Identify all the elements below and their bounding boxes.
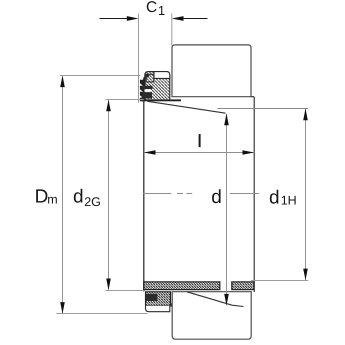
sleeve big-end outer rectangle (lower half) [172,292,251,340]
step at right of upper rectangle [251,96,254,98]
sleeve cross-section bar (lower half) left part [144,282,220,290]
svg-text:m: m [47,192,57,206]
dimension label C1 [146,0,165,18]
dimension line l with arrows [144,150,254,155]
taper outline diagonal (upper) [148,101,226,113]
dimension label d2G [73,187,101,209]
dimension line d1H with arrows [303,109,308,281]
extension line d1H bottom [251,280,308,282]
dimension label l [199,134,201,147]
locknut cross-section (upper half) [145,72,170,101]
dimension label Dm [35,187,58,208]
dimension line d2G with arrows [106,100,111,291]
extension line d1H top [218,108,309,110]
svg-text:2G: 2G [84,195,101,209]
extension line C1 left [138,14,140,103]
svg-text:d: d [211,187,222,208]
dimension line C1 (right segment with arrow) [172,16,208,21]
dimension label d1H [269,187,297,208]
lock washer section (lower, solid dark) [146,294,158,301]
dimension line Dm with arrows [60,75,65,313]
sleeve big-end outer rectangle (upper half) [172,45,251,97]
svg-text:d: d [73,187,84,208]
sleeve right face (vertical edge) [253,97,255,292]
lock washer tab (hatched square at nut top-left) [146,74,154,82]
small dark detail between nut and sleeve (lower) [170,303,174,306]
dimension line C1 (left segment with arrow) [100,16,139,21]
locknut outer silhouette (lower, unsectioned) [146,306,170,312]
sleeve left face (vertical edge) [143,101,145,291]
center line (dash-dot axis) [143,193,259,195]
svg-text:1H: 1H [281,194,297,208]
slit diagonal (lower) [187,292,244,307]
extension line d2G bottom [106,290,144,292]
locknut cross-section (lower half) [146,292,171,306]
sleeve cross-section bar (lower half) right part [232,282,254,290]
extension line Dm bottom [56,313,147,315]
svg-text:C: C [146,0,157,16]
svg-text:1: 1 [158,3,165,18]
extension line d2G top [106,99,144,101]
thread contact thick line [142,99,182,101]
lock washer serrated section (upper) [140,77,153,101]
svg-text:D: D [35,187,49,208]
svg-text:d: d [269,187,280,208]
washer bent-tab dark detail at nut top-left corner [145,74,149,78]
extension line Dm top [60,75,140,77]
dimension line d with arrows [224,114,229,306]
extension line C1 right [171,14,173,46]
